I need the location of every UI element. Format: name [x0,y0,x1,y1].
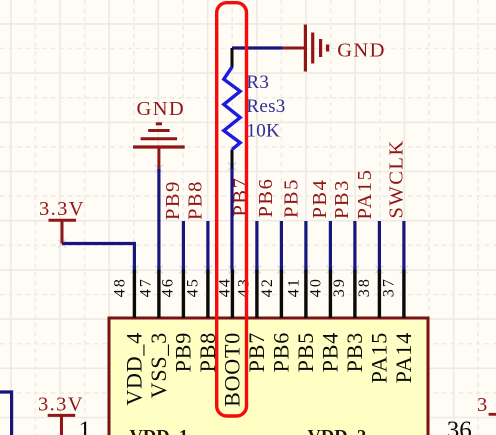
svg-text:44: 44 [217,277,234,297]
IC body U1 (microcontroller) [109,318,428,435]
pin 47 [157,270,160,319]
svg-text:GND: GND [137,98,186,120]
pin 37 [402,270,405,319]
svg-text:PB5: PB5 [280,178,302,218]
svg-text:47: 47 [138,277,155,297]
svg-text:PB3: PB3 [342,332,367,372]
wire resistor R3 to pin 44 (BOOT0) [230,167,233,270]
svg-text:40: 40 [308,277,325,297]
power bar 3.3V right edge fragment [489,413,496,416]
pin 48 [133,270,136,319]
svg-text:41: 41 [286,277,303,297]
svg-text:PB4: PB4 [318,332,343,372]
wire net stub pin 38 [378,221,381,270]
svg-text:PA15: PA15 [354,169,376,220]
wire resistor R3 top to GND [232,46,283,49]
svg-text:48: 48 [112,277,129,297]
svg-text:42: 42 [259,277,276,297]
wire net stub pin 42 [280,221,283,270]
wire net stub pin 39 [353,221,356,270]
svg-text:38: 38 [356,277,373,297]
pin 40 [329,270,332,319]
resistor R3 pin leads [231,48,234,68]
svg-text:PA15: PA15 [367,332,392,383]
svg-text:Res3: Res3 [246,96,285,117]
svg-text:PB9: PB9 [162,180,184,220]
pin 42 [280,270,283,319]
wire net stub pin 45 [206,221,209,270]
pin 38 [378,270,381,319]
wire net stub pin 41 [304,221,307,270]
svg-text:R3: R3 [246,72,269,93]
svg-text:1: 1 [79,417,92,435]
wire net stub pin 37 [402,221,405,270]
pin 44 [231,270,234,319]
svg-text:BOOT0: BOOT0 [220,332,245,407]
svg-text:37: 37 [380,277,397,297]
wire net stub pin 46 [182,221,185,270]
svg-text:VSS_3: VSS_3 [146,332,171,398]
wire net stub pin 43 [255,221,258,270]
svg-text:3.3V: 3.3V [39,198,85,220]
svg-text:39: 39 [331,277,348,297]
svg-text:SWCLK: SWCLK [386,139,408,218]
svg-text:45: 45 [184,277,201,297]
svg-text:PB6: PB6 [269,332,294,372]
wire 3.3V to pin 48 [62,244,134,270]
svg-text:PB4: PB4 [309,179,331,219]
svg-text:10K: 10K [246,121,280,142]
wire bottom-left corner [0,392,12,435]
pin 41 [304,270,307,319]
svg-text:36: 36 [447,417,472,435]
svg-text:3: 3 [477,394,487,416]
pin 39 [353,270,356,319]
svg-text:PB5: PB5 [293,332,318,372]
svg-text:PB9: PB9 [171,332,196,372]
svg-text:PB7: PB7 [230,177,252,217]
pin 46 [182,270,185,319]
svg-text:VDD_4: VDD_4 [122,332,147,406]
svg-text:PB3: PB3 [331,179,353,219]
svg-text:3.3V: 3.3V [38,394,84,416]
ground GND (top right) [283,25,328,72]
pin hotspot markers [58,163,408,274]
highlight box around BOOT0 column [217,3,247,416]
pin 43 [255,270,258,319]
svg-text:43: 43 [236,277,253,297]
svg-text:46: 46 [159,277,176,297]
wire GND to pin 47 [157,169,160,270]
svg-text:GND: GND [337,39,386,61]
svg-text:VDD_2: VDD_2 [308,428,367,435]
svg-text:PB6: PB6 [255,178,277,218]
svg-text:PA14: PA14 [391,332,416,383]
svg-text:PB8: PB8 [185,180,207,220]
svg-text:VDD_1: VDD_1 [130,428,189,435]
resistor R3 zigzag [224,67,240,150]
wire net stub pin 40 [329,221,332,270]
pin 45 [206,270,209,319]
